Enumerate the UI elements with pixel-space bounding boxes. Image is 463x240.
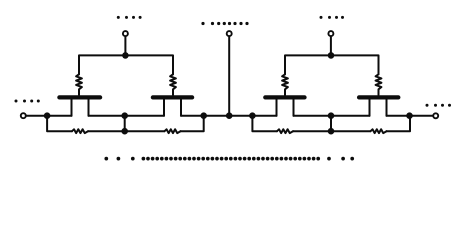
wire gate bus right — [285, 55, 379, 74]
FET Q2 drain stub — [180, 99, 182, 115]
ellipsis continuation dots top-center — [201, 22, 204, 25]
wire center terminal stem to main line — [228, 37, 230, 116]
terminal left port — [21, 113, 26, 118]
wire main line: node D to Q3 source — [252, 115, 276, 117]
wire main line: node B to Q2 source — [125, 115, 164, 117]
junction node E lower — [328, 128, 335, 135]
terminal top-left gate bias port — [123, 31, 128, 36]
resistor shunt R6 (horizontal) — [165, 129, 181, 133]
wire shunt rail up to node C — [181, 116, 204, 132]
wire main line: node E to Q4 source — [331, 115, 370, 117]
FET Q3 drain stub — [293, 99, 295, 115]
wire main line: Q3 drain to node E — [294, 115, 332, 117]
wire main line: left port to Q1 source — [26, 115, 72, 117]
wire main line: Q4 drain to node F — [387, 115, 410, 117]
wire main line: Q1 drain to node B — [89, 115, 125, 117]
wire gate bus left — [79, 55, 173, 74]
ellipsis continuation dots right — [426, 104, 429, 107]
wire shunt rail to node E lower — [293, 130, 371, 132]
resistor gate R3 (vertical) — [282, 74, 288, 95]
junction node gate-right — [328, 52, 335, 59]
junction node A — [44, 112, 51, 119]
junction node B lower — [121, 128, 128, 135]
resistor shunt R5 (horizontal) — [72, 129, 88, 133]
wire top-left terminal stem — [124, 37, 126, 55]
junction node center — [226, 112, 233, 119]
FET Q3 source stub — [276, 99, 278, 115]
junction node gate-left — [122, 52, 129, 59]
ellipsis continuation dots top-right — [320, 16, 323, 19]
wire top-right terminal stem — [330, 37, 332, 55]
wire main line: node F to right port — [410, 115, 434, 117]
FET Q2 gate bar — [153, 95, 192, 99]
FET Q1 drain stub — [88, 99, 90, 115]
junction node F — [406, 112, 413, 119]
ellipsis continuation dots top-left — [117, 16, 120, 19]
junction node D — [249, 112, 256, 119]
wire link node B upper-lower — [124, 116, 126, 132]
FET Q1 gate bar — [59, 95, 100, 99]
FET Q2 source stub — [163, 99, 165, 115]
FET Q4 drain stub — [386, 99, 388, 115]
terminal top-right gate bias port — [328, 31, 333, 36]
junction node C — [200, 112, 207, 119]
FET Q4 gate bar — [359, 95, 398, 99]
ellipsis continuation dots bottom sparse right — [327, 157, 331, 161]
resistor gate R2 (vertical) — [170, 74, 176, 95]
ellipsis continuation dots bottom dense run — [142, 157, 146, 161]
resistor gate R1 (vertical) — [76, 74, 82, 95]
resistor gate R4 (vertical) — [376, 74, 382, 95]
ellipsis continuation dots bottom sparse left — [104, 157, 108, 161]
resistor shunt R8 (horizontal) — [371, 129, 387, 133]
resistor shunt R7 (horizontal) — [277, 129, 293, 133]
FET Q4 source stub — [369, 99, 371, 115]
junction node E upper — [328, 112, 335, 119]
terminal right port — [433, 113, 438, 118]
ellipsis continuation dots left — [15, 100, 18, 103]
FET Q3 gate bar — [265, 95, 304, 99]
terminal top-center port — [227, 31, 232, 36]
wire main line: node C through center node to node D — [204, 115, 253, 117]
wire shunt rail up to node F — [387, 116, 411, 132]
FET Q1 source stub — [71, 99, 73, 115]
junction node B upper — [121, 112, 128, 119]
wire shunt branch down at node D — [252, 116, 277, 132]
wire link node E upper-lower — [330, 116, 332, 132]
wire main line: Q2 drain to node C — [181, 115, 204, 117]
wire shunt branch down at node A — [47, 116, 72, 132]
wire shunt rail to node B lower — [88, 130, 165, 132]
